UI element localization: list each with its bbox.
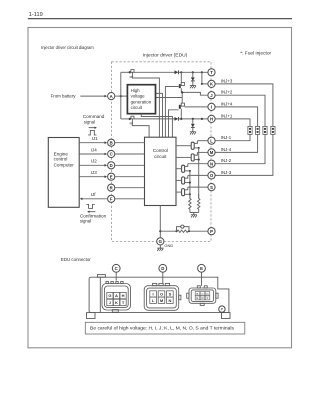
svg-text:GND: GND [164,243,173,248]
svg-text:RP: RP [130,122,134,126]
wire: bottom rail to terminal H [179,118,208,120]
transistor T7 (check signal S) [176,187,190,196]
transistor T4 (INJ-4 low side) [176,152,199,161]
wire: A to high voltage generation circuit [115,95,127,97]
wire: bottom rail to diode [134,118,175,120]
svg-text:P: P [221,308,224,312]
svg-text:I: I [153,292,154,297]
wire: top rail left segment [121,71,129,73]
wire: D into control circuit [115,164,144,166]
connector E pins B C D / E R F [195,292,210,300]
connector E housing [187,286,218,306]
svg-text:signal: signal [80,219,91,224]
wire: M2 source return to control circuit [132,119,149,137]
injector loop 2: J to N [215,95,265,164]
wire: HV box output stub lower [156,97,183,99]
terminal N [208,160,215,167]
injector loop 3: K to O [215,84,273,175]
wire: B into control circuit [115,142,144,144]
terminal D [108,162,115,169]
terminal B [108,139,115,146]
svg-text:K: K [115,300,118,305]
svg-text:C: C [110,152,113,157]
svg-text:B: B [110,140,113,145]
junction: T6 source node [189,182,191,184]
ground (sense resistors) [191,215,197,218]
transistor T6 (INJ-3 low side) [176,175,190,184]
wire: top rail to diode [134,71,175,73]
wire: T1 gate from control circuit [165,87,178,138]
svg-text:Injector driver circuit diagra: Injector driver circuit diagram [41,45,94,50]
wire: callout C leader [115,272,117,280]
svg-text:N: N [168,298,171,303]
connector callout D [159,264,167,272]
svg-text:R: R [201,296,203,300]
resistor R1 (current sense left) [189,194,191,212]
wire: E into control circuit [115,176,144,178]
wire: IJf confirmation line from F [82,198,107,200]
wire: S row to terminal S [188,186,208,188]
junction: J node [181,91,183,93]
svg-text:D: D [161,266,164,271]
svg-text:EDU connector: EDU connector [61,257,91,262]
junction: P branch node [159,230,161,232]
svg-text:High: High [131,88,141,93]
svg-text:Control: Control [153,148,168,153]
wire: callout E leader [201,272,203,286]
junction: T7 source node [189,193,191,195]
svg-text:INJ+4: INJ+4 [221,101,233,106]
wire: C into control circuit [115,153,144,155]
svg-text:IJ2: IJ2 [91,159,98,164]
wire: sense rail left [189,171,191,199]
svg-text:H: H [210,117,213,122]
wire: J row to terminal J [182,92,208,95]
wire: sense rail right [198,148,200,199]
diode D2 (bottom rail) [175,117,179,121]
svg-text:INJ-2: INJ-2 [221,158,232,163]
transistor T1 (INJ+2 switch) [179,72,185,92]
svg-text:INJ+1: INJ+1 [221,113,233,118]
terminal O [208,172,215,179]
connector callout C [112,264,120,272]
junction: bottom rail nodes [180,118,182,120]
ground (bottom rail clamp) [190,132,196,135]
wire: N row to terminal N [188,163,208,165]
svg-text:INJ+2: INJ+2 [221,90,233,95]
terminal M [208,149,215,156]
wire: M row to terminal M [197,151,208,153]
terminal A [108,93,115,100]
svg-text:Computer: Computer [54,163,75,168]
wire: F into control circuit [115,198,144,200]
resistor R3 (P line) [177,230,188,232]
svg-text:circuit: circuit [131,105,143,110]
wire: IJ4 command line to C [79,153,104,155]
transistor M2 (switching, RP) [129,116,135,126]
wire: P row left segment [160,230,177,232]
fuel injector 2 [263,126,267,134]
svg-text:J: J [109,300,111,305]
svg-text:Confirmation: Confirmation [80,213,107,218]
wire: L row to terminal L [197,140,208,142]
zener Z1 to ground [191,72,195,85]
injector loop 1: H to L [215,119,250,141]
terminal E [108,173,115,180]
transistor T3 (INJ-1 low side) [176,141,199,150]
transistor T5 (INJ-2 low side) [176,164,190,173]
terminal R [108,184,115,191]
svg-text:C: C [115,266,118,271]
diode D1 (top rail) [175,70,179,74]
connector C housing [102,281,131,312]
command pulse symbol with arrow [88,128,96,135]
connector callout E [198,264,206,272]
wire: control circuit to GND terminal G [159,206,161,238]
svg-text:INJ+3: INJ+3 [221,78,233,83]
svg-text:Be careful of high voltage: H,: Be careful of high voltage: H, I, J, K, … [90,325,234,331]
engine control computer U2 [48,138,79,208]
wire: HV box bottom to control circuit [141,114,172,138]
svg-text:N: N [210,161,213,166]
wire: M1 source return to control circuit [132,72,159,137]
terminal J [208,92,215,99]
wire: battery feed with arrow into terminal A [80,95,104,97]
wire: O row to terminal O [188,174,208,176]
svg-text:O: O [160,292,163,297]
svg-text:L: L [210,138,213,143]
terminal C [108,150,115,157]
zener Z2 to ground [191,119,195,132]
svg-text:INJ-1: INJ-1 [221,135,232,140]
wire: HV box output stub upper [156,93,163,137]
control circuit U3 [145,137,177,205]
terminal G (GND) [157,238,164,245]
svg-text:T: T [210,70,213,75]
svg-text:Injector driver (EDU): Injector driver (EDU) [143,52,188,58]
terminal T [208,69,215,76]
wire: top rail to terminal T [179,71,208,73]
svg-text:F: F [110,197,113,202]
svg-text:E: E [197,296,199,300]
svg-text:circuit: circuit [154,154,167,159]
wire: IJ1 command line to B [79,142,104,144]
svg-text:H: H [122,293,125,298]
ground (top rail clamp) [190,86,196,89]
svg-text:A: A [115,293,118,298]
wire: callout D leader [162,272,164,283]
terminal S [208,184,215,191]
caution note box [85,322,245,334]
junction: battery node [120,95,122,97]
wire: T2 gate from control circuit [169,110,179,137]
wire: R into control circuit [115,187,144,189]
wire: top rail drop to terminal K [202,72,208,84]
terminal F [108,195,115,202]
wire: T1 source node to J row [180,92,183,103]
junction: bypass nodes [175,230,177,232]
capacitor/bypass element over R3 [177,225,190,231]
wire: IJ2 command line to D [79,164,104,166]
svg-text:IJ4: IJ4 [91,147,98,152]
case terminal P [219,306,225,312]
svg-text:signal: signal [84,120,95,125]
confirmation pulse symbol with arrow [86,204,95,211]
terminal L [208,137,215,144]
svg-text:A: A [110,94,113,99]
fuel injector 4 [256,126,260,134]
svg-text:IJ1: IJ1 [92,136,99,141]
wire: IJ3 command line to E [79,176,104,178]
svg-text:Command: Command [83,114,105,119]
connector D housing [144,283,181,310]
svg-text:*: Fuel injector: *: Fuel injector [240,50,271,56]
svg-text:M: M [210,150,214,155]
junction: T3 source node [198,147,200,149]
junction: T4 source node [198,159,200,161]
connector C pins G A H / J K T [107,292,126,305]
terminal H [208,115,215,122]
junction: top rail nodes [180,71,182,73]
svg-text:control: control [54,157,68,162]
transistor T2 (INJ+4 switch) [179,103,185,119]
junction: T5 source node [189,170,191,172]
wire: battery vertical bus [120,72,122,119]
resistor R2 (current sense right) [198,194,200,213]
svg-text:INJ-3: INJ-3 [221,170,232,175]
svg-text:F: F [207,296,209,300]
svg-text:1-119: 1-119 [29,12,43,18]
terminal P [208,228,215,235]
svg-text:P: P [210,229,213,234]
terminal K [208,80,215,87]
svg-text:S: S [169,292,172,297]
connector D pins I O S / L M N [150,291,173,304]
wire: bottom rail left segment [121,118,129,120]
svg-text:D: D [110,163,113,168]
wire: sense resistor common [190,213,199,215]
svg-text:E: E [110,174,113,179]
svg-text:E: E [200,266,203,271]
svg-text:IJ3: IJ3 [91,170,98,175]
wire: P row right segment to terminal P [188,230,208,232]
terminal I [208,103,215,110]
wire: I row to terminal I [185,106,208,108]
fuel injector 3 [271,126,275,134]
fuel injector 1 [248,126,252,134]
svg-text:IJf: IJf [91,192,97,197]
svg-text:G: G [108,293,111,298]
injector loop 4: I to M [215,107,258,152]
EDU enclosure (dashed boundary) [112,62,212,242]
svg-text:voltage: voltage [131,93,146,98]
svg-text:INJ-4: INJ-4 [221,147,232,152]
svg-text:generation: generation [131,99,152,104]
high voltage generation circuit U1 [127,85,155,114]
EDU case outline [87,275,231,319]
svg-text:I: I [211,105,212,110]
transistor M1 (switching, RP) [129,70,135,79]
ground (G terminal) [157,245,163,251]
svg-text:S: S [210,185,213,190]
svg-text:From battery: From battery [51,93,77,98]
